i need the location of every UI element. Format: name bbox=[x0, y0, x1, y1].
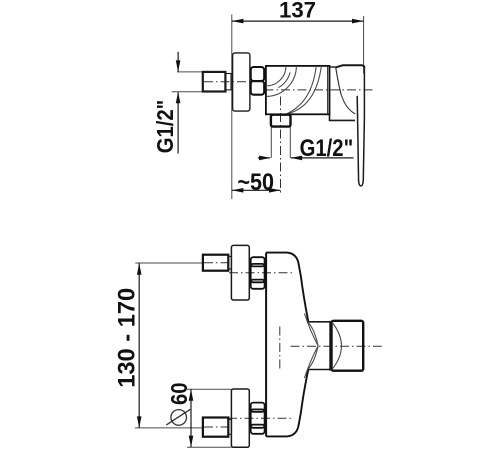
svg-text:60: 60 bbox=[166, 383, 192, 406]
svg-text:~50: ~50 bbox=[237, 169, 274, 196]
svg-text:G1/2": G1/2" bbox=[152, 100, 178, 154]
svg-text:G1/2": G1/2" bbox=[300, 135, 354, 162]
svg-text:137: 137 bbox=[279, 0, 316, 23]
svg-text:130 - 170: 130 - 170 bbox=[113, 288, 140, 388]
